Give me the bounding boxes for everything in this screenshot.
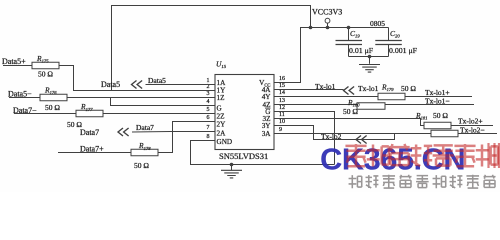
wire cap C20 top lead <box>388 28 390 41</box>
wire caps bottom rail <box>349 56 389 58</box>
off-page arrow Tx-lo2 <box>356 136 367 144</box>
wire pin 15 (4A) Tx-lo1 <box>274 89 344 91</box>
wire pin 13 (4Z) to Tx-lo1- <box>274 104 474 106</box>
svg-text:GND: GND <box>217 138 233 146</box>
wire pin 9 (3A) to Tx-lo2- <box>274 133 497 135</box>
watermark gray slogan characters <box>349 175 362 188</box>
wire Data7 to pin 7 (2A) <box>132 131 215 134</box>
svg-text:5: 5 <box>207 107 210 113</box>
svg-text:50 Ω: 50 Ω <box>45 103 60 112</box>
junction <box>326 26 330 30</box>
svg-text:Tx-lo2−: Tx-lo2− <box>460 125 485 134</box>
svg-text:2Y: 2Y <box>217 121 227 129</box>
ground under IC <box>221 170 242 178</box>
wire Data7- to pin 5 (2Z) <box>103 113 215 115</box>
wire Data7+ lead <box>58 152 131 154</box>
wire cap C19 top lead <box>348 28 350 41</box>
svg-text:Data7: Data7 <box>80 128 99 137</box>
wire Data5- lead <box>9 97 40 99</box>
wire Data5 to pin 1 <box>146 84 216 86</box>
wire pin16 Vcc to rail <box>274 28 389 83</box>
svg-text:50 Ω: 50 Ω <box>401 84 416 93</box>
svg-text:8: 8 <box>207 134 210 140</box>
wire pin 10 (3Y) to Tx-lo2 port <box>274 126 395 140</box>
svg-text:9: 9 <box>279 127 282 133</box>
resistor R182 <box>431 130 458 137</box>
svg-text:Tx-lo1: Tx-lo1 <box>358 84 379 93</box>
svg-text:12: 12 <box>279 105 285 111</box>
svg-text:7: 7 <box>207 125 210 131</box>
off-page arrow Tx-lo1 <box>344 87 355 95</box>
svg-text:Tx-lo2+: Tx-lo2+ <box>458 117 483 126</box>
svg-text:10: 10 <box>279 119 285 125</box>
wire pin 11 (3Z) to Tx-lo2+ <box>274 119 493 126</box>
junction <box>368 55 372 59</box>
VCC3V3 terminal circle <box>325 18 330 23</box>
svg-text:Data5+: Data5+ <box>2 57 26 66</box>
svg-text:G: G <box>217 105 222 113</box>
svg-text:50 Ω: 50 Ω <box>38 69 53 78</box>
resistor R178 <box>131 149 158 156</box>
svg-text:15: 15 <box>279 83 285 89</box>
off-page arrow Data7 <box>118 128 129 136</box>
op-amp U15 SN55LVDS31 IC body <box>215 75 274 150</box>
wire Data5+ to pin 2 (1Y) <box>59 66 215 91</box>
svg-text:4: 4 <box>207 99 210 105</box>
wire pin 8 GND rail <box>191 141 335 165</box>
svg-text:50 Ω: 50 Ω <box>343 107 358 116</box>
wire Data7+ to pin 6 (2Y) <box>158 122 215 153</box>
svg-text:11: 11 <box>279 112 285 118</box>
junction <box>347 26 351 30</box>
wire branch to pin 4 (G) <box>111 98 216 106</box>
svg-text:13: 13 <box>279 98 285 104</box>
junction <box>230 163 234 167</box>
svg-text:Data7: Data7 <box>136 123 154 132</box>
svg-text:16: 16 <box>279 76 285 82</box>
svg-text:2A: 2A <box>217 130 227 138</box>
wire ground stem top <box>369 57 371 64</box>
wire pin 14 (4Y) to Tx-lo1+ <box>274 96 472 98</box>
wire cap C20 bottom lead <box>388 45 390 57</box>
off-page arrow Data5 <box>132 81 143 89</box>
svg-text:Data5: Data5 <box>148 76 166 85</box>
resistor R180 <box>357 103 385 110</box>
wire cap C19 bottom lead <box>348 45 350 57</box>
capacitor C19 <box>336 41 363 45</box>
wire ground stem <box>231 165 233 171</box>
svg-text:4Y: 4Y <box>262 93 272 101</box>
capacitor C20 <box>375 41 402 45</box>
svg-text:0805: 0805 <box>370 19 385 28</box>
svg-text:0.01 μF: 0.01 μF <box>349 46 374 55</box>
svg-text:50 Ω: 50 Ω <box>134 161 149 170</box>
resistor R177 <box>76 110 103 117</box>
resistor R179 <box>378 93 405 100</box>
svg-text:14: 14 <box>279 90 285 96</box>
wire pin 12 G-bar to ground rail <box>274 112 335 165</box>
svg-text:3: 3 <box>207 91 210 97</box>
svg-text:Tx-lo1−: Tx-lo1− <box>425 96 450 105</box>
svg-text:Data5: Data5 <box>101 80 120 89</box>
watermark red characters <box>345 144 366 166</box>
resistor R181 <box>424 122 451 129</box>
svg-text:1Z: 1Z <box>217 94 225 102</box>
svg-text:6: 6 <box>207 115 210 121</box>
wire top loop from 1Y row to VCC rail <box>112 6 311 91</box>
svg-text:3Y: 3Y <box>262 122 272 130</box>
wire Data5- to pin 3 (1Z) <box>67 97 215 99</box>
svg-text:Data5−: Data5− <box>8 89 32 98</box>
svg-text:SN55LVDS31: SN55LVDS31 <box>219 151 268 161</box>
svg-text:50 Ω: 50 Ω <box>433 111 448 120</box>
svg-text:VCC3V3: VCC3V3 <box>312 8 342 17</box>
svg-text:0.001 μF: 0.001 μF <box>389 46 418 55</box>
resistor R175 <box>32 62 59 69</box>
ground under caps <box>359 65 380 73</box>
wire Data5+ lead <box>3 65 32 67</box>
svg-text:Data7+: Data7+ <box>80 144 104 153</box>
junction <box>309 26 313 30</box>
wire VCC stem <box>327 23 329 27</box>
svg-text:3A: 3A <box>262 130 272 138</box>
wire Data7- lead <box>14 113 76 115</box>
resistor R176 <box>40 94 67 101</box>
svg-text:Tx-lo1: Tx-lo1 <box>315 82 336 91</box>
svg-text:2Z: 2Z <box>217 113 225 121</box>
